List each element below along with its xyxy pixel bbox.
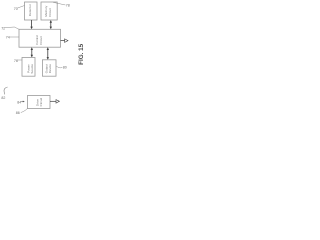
svg-text:74: 74 [6, 36, 10, 40]
wire B5 output right (open arrow) [50, 100, 59, 104]
wire control output right (open arrow) [61, 39, 69, 43]
label 86 with curved leader to box corner [16, 108, 28, 115]
label 84 with arrow into box [17, 100, 25, 104]
box B3 Power Source (bottom-left) [22, 58, 35, 77]
label 74 with leader into control box [6, 36, 19, 40]
svg-text:72: 72 [1, 27, 5, 31]
svg-text:Circuit: Circuit [39, 36, 43, 45]
svg-text:FIG. 15: FIG. 15 [78, 43, 85, 64]
box B1 Detector (top-left) [25, 2, 38, 20]
box U1 Control Circuit (center) [19, 29, 61, 47]
svg-text:70: 70 [14, 7, 18, 11]
svg-text:Detector: Detector [28, 4, 32, 16]
antenna curl (fig 16) [4, 87, 8, 94]
wire B2 to control (double arrow) [50, 20, 52, 29]
svg-text:84: 84 [17, 100, 21, 104]
label 80 with curved leader [56, 66, 67, 70]
wire control to B3 (double arrow) [31, 47, 33, 57]
svg-text:Circuit: Circuit [39, 98, 43, 107]
label 76 [14, 59, 22, 63]
label 78 [53, 2, 70, 7]
svg-text:80: 80 [63, 66, 67, 70]
svg-text:82: 82 [1, 96, 5, 100]
box B2 Memory Circuit (top-right) [41, 2, 57, 20]
box B5 Drive Circuit (fig 16) [28, 96, 51, 109]
wire B1 to control (down arrow) [30, 20, 32, 29]
FIG. 15 caption (rotated) [78, 43, 85, 64]
label 72 [1, 27, 19, 31]
wire control to B4 (double arrow) [47, 47, 49, 60]
box B4 Output Device (bottom-right) [42, 60, 56, 76]
svg-text:76: 76 [14, 59, 18, 63]
svg-text:86: 86 [16, 111, 20, 115]
label 70 [14, 6, 25, 12]
svg-text:Device: Device [48, 64, 52, 74]
svg-text:78: 78 [66, 4, 70, 8]
label 82 (under curl) [1, 96, 5, 100]
svg-text:Circuit: Circuit [48, 8, 52, 17]
svg-text:Source: Source [30, 64, 34, 74]
